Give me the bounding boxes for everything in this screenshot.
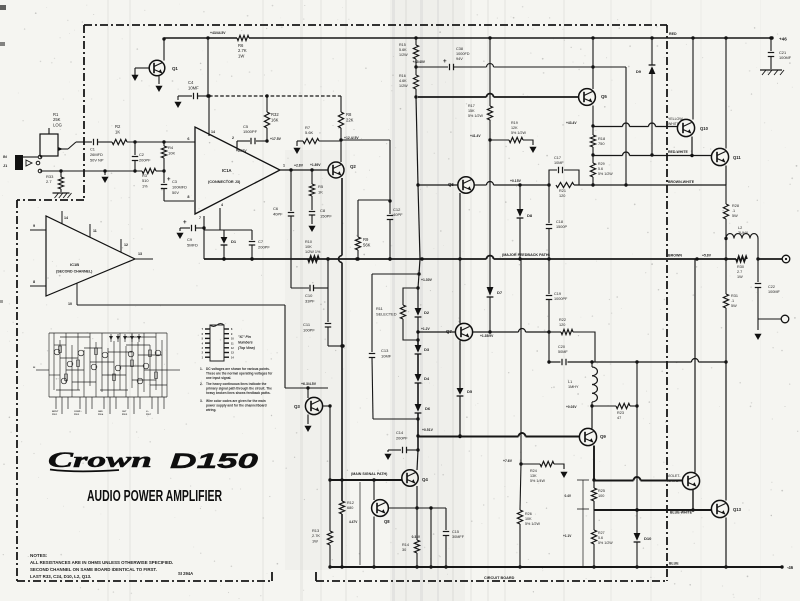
capacitor C5 [236,141,238,148]
svg-text:10MF: 10MF [554,161,564,165]
svg-text:R32: R32 [271,112,279,117]
svg-text:1%: 1% [142,183,148,188]
diagram IC internal schematic block [49,333,167,397]
svg-text:AUDIO POWER AMPLIFIER: AUDIO POWER AMPLIFIER [87,488,222,505]
resistor R15 [415,38,417,45]
svg-text:C15: C15 [452,530,459,534]
capacitor C10 [291,287,309,289]
resistor R12 [341,480,343,501]
svg-text:750: 750 [598,141,605,146]
wire Q10 collector to rail [692,38,694,120]
wire IC1A output to Q2 [280,169,328,171]
svg-text:680: 680 [347,506,353,510]
wire major feedback path [204,258,487,260]
svg-text:6: 6 [187,137,189,141]
transistor Q13 [711,500,728,517]
svg-text:PIN 5: PIN 5 [122,414,128,416]
wire C10 up to feedback line [327,259,329,288]
svg-text:C9: C9 [187,237,193,242]
svg-text:PIN 7: PIN 7 [146,414,152,416]
svg-text:40PF: 40PF [273,211,283,216]
resistor R4 [163,142,165,146]
svg-text:1/2W 1%: 1/2W 1% [305,250,321,254]
svg-text:+7.6V: +7.6V [503,459,513,463]
potentiometer R1 [40,134,58,156]
svg-text:COMP: COMP [74,411,81,413]
svg-text:Q8: Q8 [384,519,390,524]
svg-text:+: + [443,58,447,65]
svg-text:10: 10 [68,302,72,306]
svg-text:BLUE: BLUE [669,562,679,566]
svg-text:R2: R2 [115,124,121,129]
wire IC1B pin14 stub [61,211,63,224]
svg-text:Q2: Q2 [350,164,356,169]
svg-text:26MFD: 26MFD [90,152,103,157]
wire Q13 collector column [725,362,727,501]
svg-text:200PF: 200PF [139,157,151,162]
wire Q10 base line [593,126,623,128]
svg-text:L2: L2 [738,226,742,230]
resistor R30 [736,256,747,261]
svg-text:R28: R28 [732,204,739,208]
svg-text:5.6K: 5.6K [305,130,314,135]
svg-text:IC1B: IC1B [70,262,79,267]
resistor R19 [490,139,509,141]
capacitor C1 [93,139,95,145]
capacitor C19 [548,259,550,294]
wire Q3 supply line [285,387,328,389]
ground hatched below R33 [53,192,70,194]
small resistors inside IC block [59,346,158,381]
svg-text:R14: R14 [402,543,409,547]
svg-text:GND: GND [98,411,103,413]
svg-text:94V: 94V [456,57,463,61]
svg-text:+43.4V: +43.4V [566,121,577,125]
wire x208 rail to C4 line [207,38,209,96]
svg-text:40PF: 40PF [393,212,403,217]
wire IC1A pin7 column [203,216,205,259]
svg-text:100: 100 [598,494,604,498]
resistor R13 [329,480,331,531]
svg-text:5.6: 5.6 [598,536,603,540]
capacitor C7 [251,230,253,240]
wire Q5 emitter [592,106,594,127]
svg-text:R31: R31 [731,294,738,298]
svg-text:C4: C4 [188,80,194,85]
diode D1 [223,230,225,237]
wire Q2 emitter column [341,178,343,256]
svg-text:PIN 1: PIN 1 [52,414,58,416]
svg-text:+: + [183,219,187,226]
svg-text:C13: C13 [381,348,389,353]
svg-text:R21: R21 [559,189,566,193]
wire Q7 base from bias column [418,331,455,333]
svg-text:15K: 15K [468,109,475,113]
wire main signal path line [418,436,519,438]
svg-text:+0.51V: +0.51V [422,428,434,432]
wire C15 branch [417,507,446,509]
svg-text:OUT: OUT [122,411,127,413]
svg-text:R17: R17 [468,104,475,108]
ground arrow output common [757,319,759,330]
svg-text:SELECTED: SELECTED [376,311,397,316]
svg-text:7: 7 [199,216,201,220]
svg-text:+46: +46 [779,37,787,42]
svg-text:C1: C1 [90,147,95,152]
resistor R6 [237,35,249,40]
capacitor C6 [290,170,292,211]
circuit board boundary dash-dot border [84,24,667,26]
transistor Q4 [402,470,418,486]
wire IC1B pin12 stub [120,239,122,252]
wire Q4 base line main signal path [330,479,402,481]
diode D7 [487,287,494,296]
svg-text:C19: C19 [554,292,561,296]
resistor R10 [308,256,319,261]
wire Q12 emitter [692,490,694,511]
transistor Q2 [328,162,344,178]
ground arrow for C9 [179,228,181,231]
resistor R23 [592,405,616,407]
svg-text:10K: 10K [305,245,312,249]
svg-text:(SECOND CHANNEL): (SECOND CHANNEL) [56,270,93,274]
svg-text:heavy broken lines shows feedb: heavy broken lines shows feedback paths. [206,391,271,395]
svg-text:56K: 56K [363,242,371,247]
svg-text:C2: C2 [139,152,144,157]
svg-text:Q3: Q3 [294,404,300,409]
wire Q12 collector column [694,259,696,473]
svg-text:1K: 1K [318,189,323,194]
svg-text:1500P: 1500P [556,225,567,229]
op-amp IC1B second channel [46,216,135,296]
svg-text:BLUE-WHITE: BLUE-WHITE [670,511,693,515]
wire output line to terminal [758,258,782,260]
wire y67 to Q10 ladder corner [593,66,626,68]
svg-text:150PF: 150PF [320,213,332,218]
svg-text:+1.2V: +1.2V [421,327,431,331]
svg-text:R9: R9 [363,237,369,242]
svg-text:+17.5V: +17.5V [270,137,282,141]
capacitor C3 electrolytic [163,171,165,183]
svg-text:SECOND CHANNEL ON SAME BOARD I: SECOND CHANNEL ON SAME BOARD IDENTICAL T… [30,567,157,572]
node measurement 4.47V [359,482,361,565]
ground arrow for R7 [296,141,298,146]
svg-text:+41.4V: +41.4V [470,134,481,138]
wire C13 bottom corner to bias column [373,418,418,420]
resistor R17 [487,106,492,120]
wire Q11 collector to rail [725,38,727,149]
svg-text:L1: L1 [568,380,572,384]
svg-text:+2.8V: +2.8V [294,164,304,168]
wire x626 down to brown-white line [625,67,627,185]
wire Q11 base line [593,155,623,157]
wire Q1 collector to rail [163,38,165,61]
wire Q5 collector [592,38,594,89]
svg-text:R19: R19 [511,121,518,125]
wire IC1B pin8 stub [30,285,46,287]
svg-text:2.: 2. [200,382,203,386]
svg-text:Numbers: Numbers [238,341,253,345]
wire Q2 collector [340,140,342,162]
transistor Q7 [455,323,472,340]
wire x637 column [636,362,638,406]
svg-text:1000FD: 1000FD [456,52,470,56]
svg-text:33PF: 33PF [305,298,315,303]
svg-text:R23: R23 [617,411,624,415]
svg-text:J1: J1 [3,164,7,168]
svg-text:C20: C20 [558,345,565,349]
wire input line to C1 [76,141,92,143]
capacitor C12 [389,201,391,214]
wire Q10 emitter [691,137,693,156]
resistor R25 [591,488,596,501]
svg-text:22K: 22K [346,117,354,122]
svg-text:C17: C17 [554,156,561,160]
svg-text:LAST R33, C24, D10, L2, Q13.: LAST R33, C24, D10, L2, Q13. [30,574,91,579]
ground arrow for C14 [388,449,396,451]
svg-text:(Top View): (Top View) [238,346,256,350]
svg-text:5% 1/2W: 5% 1/2W [468,114,483,118]
svg-text:+0.47V: +0.47V [236,149,247,153]
resistor R16 [413,75,418,89]
diode D8 [519,185,521,209]
svg-text:R26: R26 [525,512,532,516]
transistor Q9 [579,428,596,445]
svg-text:4: 4 [221,203,223,207]
svg-text:"IC" Pin: "IC" Pin [238,335,251,339]
svg-text:C11: C11 [303,322,311,327]
wire IC1A pin2 stub [236,141,238,150]
transistors inside IC block [54,349,161,384]
svg-text:2: 2 [232,136,234,140]
svg-text:R4: R4 [168,145,174,150]
svg-text:D6: D6 [425,406,431,411]
wire bottom supply rail -46V [330,566,782,568]
ground Q1 emitter arrow [158,76,160,85]
svg-text:.1: .1 [731,299,734,303]
wire Q8 base column [373,480,375,500]
svg-text:D150: D150 [170,449,258,473]
svg-text:100PF: 100PF [303,327,315,332]
svg-text:Q11: Q11 [733,155,741,160]
ground arrow Q3 emitter [307,415,309,425]
ground Q1 base arrow [135,67,149,69]
transistor Q1 [149,60,165,76]
svg-text:C7: C7 [258,239,264,244]
inductor L2 [726,234,758,239]
resistor R22 [549,331,561,333]
svg-text:5% 1/2W: 5% 1/2W [598,172,613,176]
svg-text:D4: D4 [424,376,430,381]
wire jack sleeve line [40,170,142,172]
transistor Q5 [579,89,596,106]
svg-text:1W: 1W [737,275,743,279]
resistor R8 [340,96,342,112]
capacitor C8 [309,211,315,213]
svg-text:Q5: Q5 [601,94,607,99]
svg-text:3UHY: 3UHY [738,231,749,235]
svg-text:(MAIN SIGNAL PATH): (MAIN SIGNAL PATH) [351,472,388,476]
svg-text:-46: -46 [787,565,794,570]
svg-text:C6: C6 [273,206,279,211]
node measurement ticks 0.4V [577,479,589,481]
svg-text:CIRCUIT BOARD: CIRCUIT BOARD [484,576,515,580]
wire output common line [758,318,781,320]
svg-text:13: 13 [138,252,142,256]
svg-text:14: 14 [211,130,215,134]
ground arrow below C8 [308,226,315,232]
wire IC1A pin4 stub and D1/C7 line [219,208,221,230]
wire IC1B pin13 output [135,258,153,260]
svg-text:30: 30 [402,548,406,552]
svg-text:5W: 5W [732,214,738,218]
svg-text:D5: D5 [467,389,473,394]
wire IC1B pin11 stub [89,224,91,237]
svg-text:wiring.: wiring. [205,408,216,412]
resistor R5 [311,170,313,184]
diode row inside IC block [110,334,112,342]
svg-text:C3: C3 [172,179,177,184]
ground arrow for C4 [177,96,179,100]
wire feedback divider column [520,259,522,464]
svg-text:1.: 1. [200,367,203,371]
svg-text:C10: C10 [305,293,313,298]
wire Q13 base line blue-white [594,509,711,511]
svg-text:50MF: 50MF [558,350,568,354]
svg-text:R11: R11 [376,306,383,311]
resistor R11 selected [403,288,418,305]
svg-text:R16: R16 [399,74,406,78]
svg-text:R24: R24 [530,469,537,473]
capacitor C21 [770,38,772,51]
wire Q7 collector up to feedback [459,259,461,324]
wire Q13 emitter [725,518,727,568]
svg-text:RED-WHITE: RED-WHITE [668,150,688,154]
svg-text:+42/40V: +42/40V [413,60,426,64]
wire bias column to main signal line [417,419,419,450]
diode D4 [415,374,422,382]
svg-text:8: 8 [33,280,35,284]
transistor Q3 [305,397,322,414]
svg-text:1K: 1K [115,129,120,134]
svg-text:16K: 16K [271,117,279,122]
svg-text:2.7: 2.7 [46,179,52,184]
svg-text:2.7: 2.7 [737,270,742,274]
transistor Q8 [372,500,389,517]
svg-text:0.4V: 0.4V [564,494,571,498]
svg-text:1W: 1W [312,538,318,543]
resistor R3 [142,168,156,173]
wire Q9 collector [591,406,593,429]
IC block pin stubs [36,370,180,414]
svg-text:D7: D7 [497,290,503,295]
capacitor C13 [371,274,373,352]
wire Q12 base line [594,480,634,482]
resistor R31 [725,259,727,294]
terminal output hot [782,255,790,263]
svg-text:5% 1/2W: 5% 1/2W [511,131,526,135]
svg-text:5% 1/2W: 5% 1/2W [598,541,613,545]
svg-text:120: 120 [559,194,565,198]
svg-text:R5: R5 [318,184,324,189]
svg-text:5W: 5W [731,304,737,308]
wire Q6 collector line to C17 [474,184,487,186]
wire C13 top line [372,273,419,275]
ground hatched for C21 [760,69,782,71]
svg-text:13K: 13K [530,474,537,478]
capacitor C2 [134,142,136,155]
inductor L1 [591,362,593,367]
op-amp IC1A [195,127,280,214]
svg-text:C18: C18 [556,220,563,224]
transistor Q11 [711,148,728,165]
svg-text:5% 1/2W: 5% 1/2W [525,522,540,526]
wire IC1A pin8 line [164,200,194,202]
node measurement ticks 1.1V [582,509,584,566]
svg-text:50V NP: 50V NP [90,158,104,163]
wire +46V supply rail [164,37,237,39]
svg-text:D2: D2 [424,310,430,315]
svg-text:4.6K: 4.6K [399,79,407,83]
svg-text:12: 12 [124,243,128,247]
resistor R27 [593,510,595,530]
svg-text:+6.3/4.5V: +6.3/4.5V [301,382,317,386]
svg-text:+0.15V: +0.15V [510,179,522,183]
svg-text:These are the normal operating: These are the normal operating voltages … [206,371,273,375]
capacitor C4 [178,95,192,97]
wire left column Q3 down to Q4 base line [329,406,331,480]
wire bootstrap box top [358,199,390,201]
wire Q4 collector [417,450,418,470]
resistor R28 [725,185,727,204]
wire current source column down [489,140,491,287]
ground arrow for R19 [529,147,536,153]
svg-text:Q9: Q9 [600,434,606,439]
resistor R26 [520,464,521,510]
svg-text:+1.89V: +1.89V [310,163,321,167]
resistor R14 [416,508,418,540]
svg-text:power supply and for the chann: power supply and for the channel/board [206,403,267,407]
wire IC1A pin14 stub [208,96,210,136]
svg-text:R29: R29 [598,162,605,166]
wire IC1B bias line to Q3 [77,304,285,306]
capacitor C38 electrolytic [416,66,448,68]
svg-text:14: 14 [64,216,68,220]
svg-text:.1: .1 [732,209,735,213]
svg-text:R27: R27 [598,531,605,535]
wire R7 node to C12 bootstrap [341,139,390,141]
svg-text:C22: C22 [768,285,775,289]
capacitor C11 [327,288,329,322]
resistor R33 [60,171,62,177]
svg-text:Wire color codes are given for: Wire color codes are given for the main [206,399,266,403]
svg-text:YELLOW-: YELLOW- [668,117,685,121]
svg-text:12K: 12K [511,126,518,130]
svg-text:200PF: 200PF [396,435,408,440]
svg-text:10MF: 10MF [381,353,392,358]
wire C19 to zobel [548,332,550,362]
resistor R9 [357,200,359,237]
svg-text:10K: 10K [525,517,532,521]
wire Q3 base stub [307,388,309,398]
wire central bias column [416,97,418,185]
svg-text:WHITE: WHITE [667,479,679,483]
svg-text:1MHY: 1MHY [568,385,579,389]
svg-text:IN: IN [3,155,7,159]
svg-text:VIOLET-: VIOLET- [667,474,681,478]
wire Q5 base line [418,96,487,98]
svg-text:The heavy continuous lines ind: The heavy continuous lines indicate the [206,382,267,386]
